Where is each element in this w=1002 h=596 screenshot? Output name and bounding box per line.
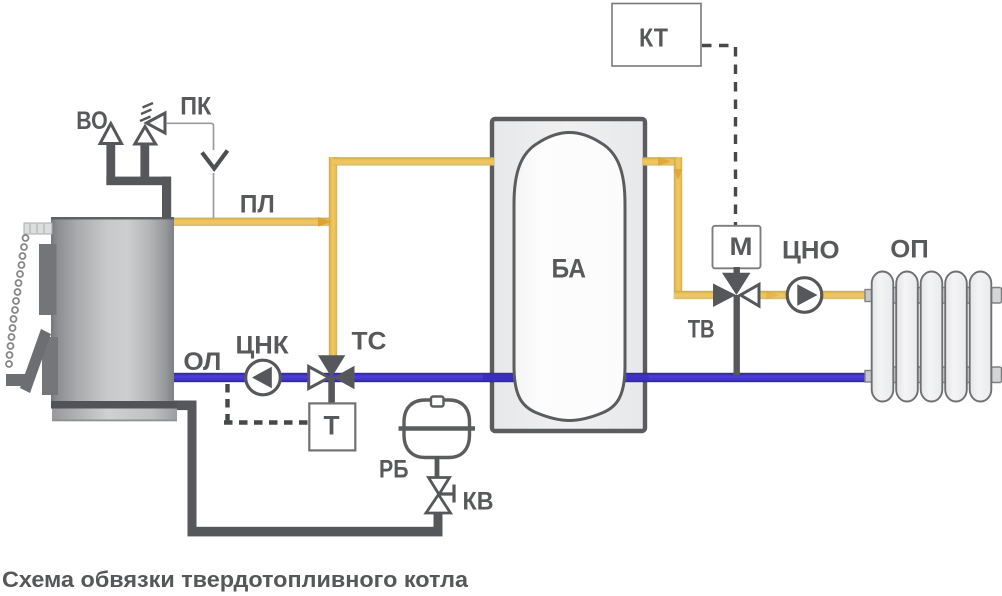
- valve TC stem: [328, 377, 335, 405]
- valve TV stem to M: [734, 267, 740, 277]
- valve KV bottom triangle: [426, 495, 451, 514]
- valve TV: left solid triangle: [713, 284, 736, 308]
- wire: return pipe OL blue from boiler through tank to radiator: [172, 373, 872, 382]
- svg-text:БА: БА: [552, 254, 587, 284]
- pump CNK impeller triangle: [252, 367, 272, 388]
- boiler pedestal: [52, 409, 177, 422]
- flow arrow on top orange line: [658, 157, 671, 166]
- valve TC: top solid triangle: [318, 355, 345, 377]
- svg-text:ОП: ОП: [890, 236, 929, 264]
- svg-text:РБ: РБ: [379, 456, 409, 484]
- boiler lower door: [42, 337, 58, 395]
- svg-text:ОЛ: ОЛ: [183, 348, 221, 376]
- motor M box: [713, 226, 761, 268]
- dashed link KT to M: [702, 46, 736, 226]
- buffer tank BA capsule: [514, 133, 625, 421]
- pump CNK circle: [246, 360, 281, 395]
- valve TC: right solid triangle: [334, 366, 355, 389]
- svg-text:ЦНО: ЦНО: [782, 237, 840, 265]
- valve TC: left hollow triangle: [309, 367, 329, 389]
- flow arrow on PL pipe: [318, 217, 332, 227]
- wire: orange vertical riser at x333: [329, 157, 337, 360]
- valve KV handle: [440, 485, 455, 503]
- wire: thin discharge line: [166, 123, 214, 150]
- safety valve PK side triangle: [147, 113, 166, 133]
- boiler upper door: [39, 244, 57, 315]
- air vent arrow VO: [100, 124, 121, 144]
- radiator inlet stubs: [865, 290, 873, 302]
- valve TV: top solid triangle: [722, 273, 751, 295]
- safety valve spring: [140, 103, 153, 121]
- svg-text:ТВ: ТВ: [688, 316, 715, 344]
- dashed link pump to T box: [224, 384, 308, 423]
- boiler body: [51, 217, 177, 421]
- radiator OP: [865, 272, 1002, 402]
- svg-text:Схема обвязки твердотопливного: Схема обвязки твердотопливного котла: [2, 567, 469, 592]
- svg-text:М: М: [730, 233, 753, 261]
- valve KV top triangle: [429, 478, 450, 495]
- room thermostat KT box: [612, 4, 701, 67]
- flow arrow darker on blue after tank: [627, 375, 649, 380]
- safety valve arrow: [135, 127, 156, 145]
- wire: orange vertical drop at x678: [674, 157, 682, 297]
- svg-text:ВО: ВО: [76, 107, 108, 135]
- wire: supply pipe PL horizontal from boiler: [172, 218, 337, 226]
- boiler top pipes: [106, 142, 171, 218]
- svg-text:ЦНК: ЦНК: [236, 332, 290, 360]
- boiler bottom band: [51, 401, 177, 409]
- svg-text:ТС: ТС: [352, 328, 387, 356]
- valve TV: right hollow triangle: [741, 285, 760, 307]
- wire: dark return/fill loop bottom: [174, 401, 443, 537]
- thermostat T box: [309, 403, 355, 450]
- wire: orange from tank right side: [642, 157, 682, 165]
- RB flange line: [399, 426, 476, 430]
- flow arrow on orange drop: [674, 169, 683, 180]
- discharge funnel V: [202, 151, 228, 169]
- RB stem: [435, 456, 440, 478]
- svg-text:ПЛ: ПЛ: [240, 191, 275, 219]
- svg-text:КВ: КВ: [463, 488, 494, 516]
- valve TV stem down to blue pipe: [734, 295, 740, 375]
- wire: orange into TV valve: [674, 291, 719, 299]
- RB top cap: [431, 397, 444, 407]
- pump CNO circle: [787, 278, 822, 313]
- flow arrow darker on blue near tank: [483, 375, 514, 380]
- pump CNO impeller triangle: [797, 284, 817, 305]
- wire: orange top horizontal to buffer tank: [333, 157, 494, 165]
- expansion tank RB: [404, 400, 470, 458]
- svg-text:Т: Т: [324, 411, 340, 441]
- wire: orange from TV valve to radiator: [755, 291, 872, 299]
- svg-text:КТ: КТ: [639, 23, 668, 53]
- boiler door handle lever: [20, 329, 51, 393]
- chain: [6, 235, 29, 367]
- radiator sections: [872, 272, 992, 402]
- flow arrow after TV valve: [766, 291, 779, 300]
- buffer tank BA outer shell: [492, 119, 645, 431]
- radiator section connectors bottom: [889, 367, 898, 383]
- svg-text:ПК: ПК: [180, 93, 212, 121]
- radiator section connectors top: [889, 288, 1002, 383]
- handle knob: [6, 374, 26, 386]
- boiler top-left stub pipe: [24, 223, 52, 234]
